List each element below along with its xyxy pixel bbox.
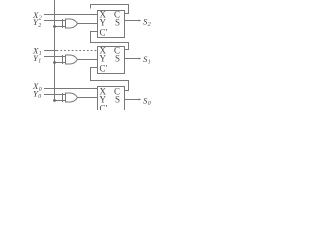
svg-text:S0: S0 — [143, 95, 151, 107]
svg-text:C′: C′ — [100, 27, 108, 37]
svg-text:Y: Y — [100, 54, 107, 64]
svg-text:Y: Y — [100, 18, 107, 28]
svg-text:C′: C′ — [100, 63, 108, 73]
svg-text:S: S — [115, 54, 120, 64]
svg-text:S1: S1 — [143, 54, 151, 66]
svg-text:S2: S2 — [143, 16, 151, 28]
svg-text:S: S — [115, 18, 120, 28]
svg-text:C′: C′ — [100, 104, 108, 110]
svg-text:S: S — [115, 95, 120, 105]
